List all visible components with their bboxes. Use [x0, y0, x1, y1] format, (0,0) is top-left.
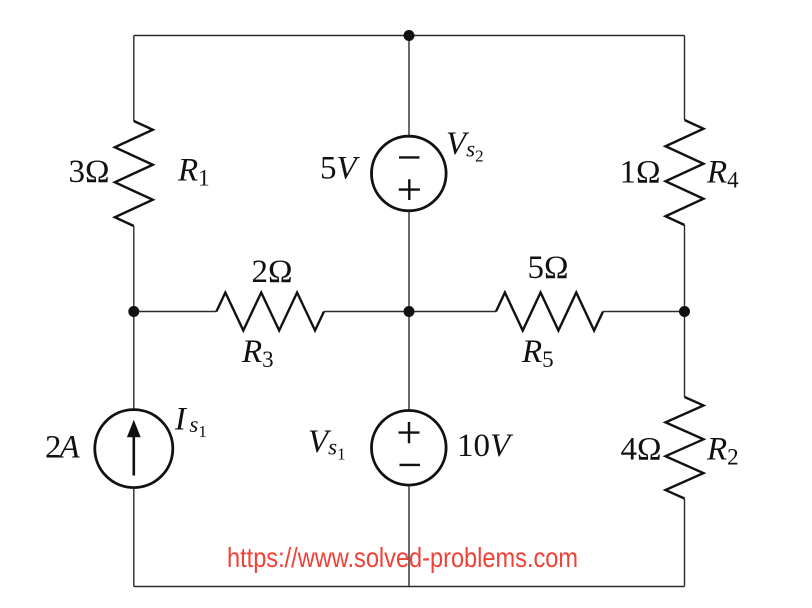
- svg-text:3Ω: 3Ω: [68, 154, 109, 190]
- wire bottom: [134, 586, 685, 588]
- svg-text:R2: R2: [706, 432, 739, 470]
- resistor R1: [115, 121, 153, 226]
- wire left lower: [133, 488, 135, 587]
- plus sign Vs2: [399, 179, 420, 200]
- node left: [128, 306, 139, 317]
- svg-text:R1: R1: [177, 153, 210, 191]
- wire right upper: [684, 36, 686, 121]
- wire middle-left horizontal: [134, 311, 217, 313]
- node center: [404, 306, 415, 317]
- wire middle top: [408, 36, 410, 137]
- plus sign Vs1: [399, 422, 420, 443]
- svg-text:Is1: Is1: [174, 402, 207, 442]
- svg-text:R5: R5: [521, 334, 554, 372]
- svg-text:R3: R3: [241, 334, 274, 372]
- resistor R5: [496, 293, 603, 331]
- svg-text:2Ω: 2Ω: [251, 254, 292, 290]
- svg-text:R4: R4: [706, 155, 739, 193]
- wire top: [134, 35, 685, 37]
- svg-text:5V: 5V: [320, 151, 361, 187]
- wire right lower: [684, 499, 686, 587]
- minus sign Vs1: [400, 464, 421, 466]
- svg-text:Vs1: Vs1: [308, 424, 346, 464]
- current source Is1: [95, 410, 173, 488]
- svg-text:10V: 10V: [457, 428, 514, 464]
- svg-text:4Ω: 4Ω: [620, 432, 661, 468]
- node right: [679, 306, 690, 317]
- current arrow: [133, 437, 136, 476]
- wire left middle: [133, 226, 135, 410]
- svg-text:5Ω: 5Ω: [527, 250, 568, 286]
- resistor R4: [666, 120, 704, 225]
- node top: [404, 30, 415, 41]
- voltage source Vs2: [372, 136, 447, 211]
- voltage source Vs1: [372, 411, 447, 486]
- wire middle horizontal gap: [324, 311, 496, 313]
- wire middle center: [408, 211, 410, 411]
- svg-text:Vs2: Vs2: [446, 126, 484, 166]
- wire right middle: [684, 225, 686, 397]
- wire middle-right horizontal: [603, 311, 685, 313]
- svg-text:1Ω: 1Ω: [619, 155, 660, 191]
- resistor R3: [216, 293, 324, 331]
- wire middle bottom: [408, 485, 410, 586]
- wire left upper: [133, 36, 135, 122]
- resistor R2: [666, 397, 704, 499]
- minus sign Vs2: [399, 156, 420, 158]
- svg-text:https://www.solved-problems.co: https://www.solved-problems.com: [227, 542, 578, 573]
- svg-text:2A: 2A: [45, 430, 81, 466]
